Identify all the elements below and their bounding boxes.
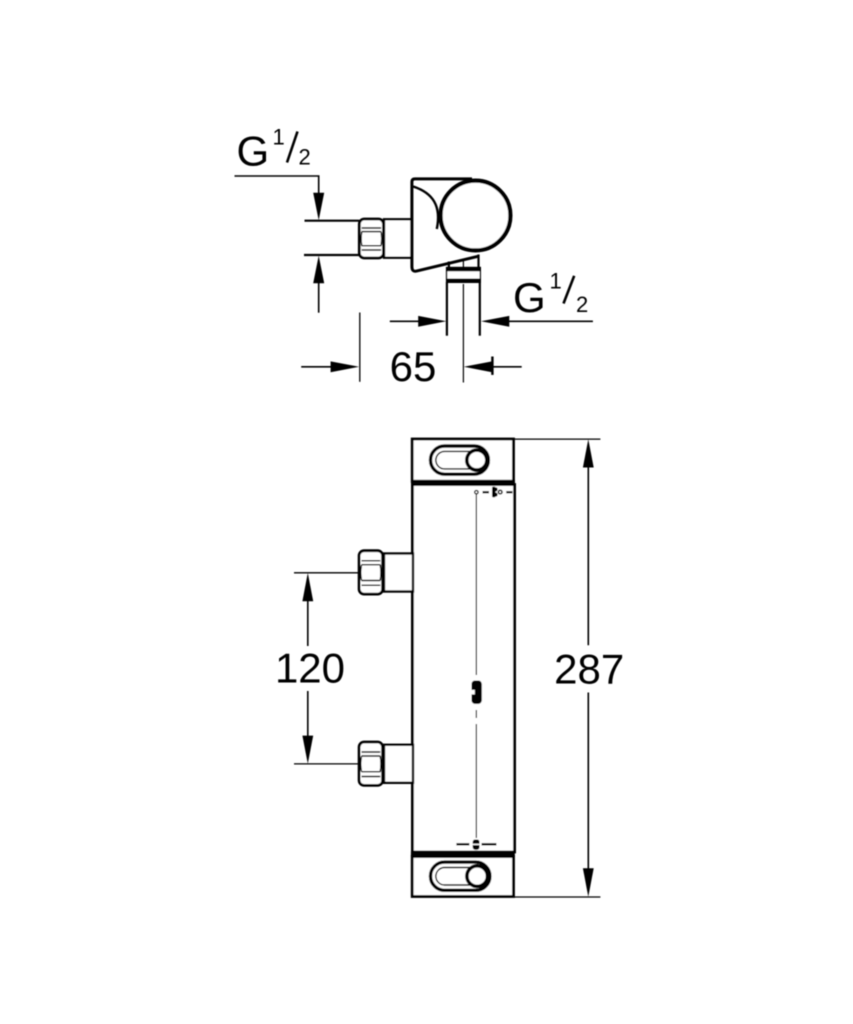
svg-text:1: 1 (550, 269, 562, 294)
svg-text:1: 1 (273, 125, 285, 150)
svg-text:G: G (237, 128, 270, 175)
svg-text:65: 65 (390, 343, 437, 390)
svg-text:2: 2 (576, 292, 588, 317)
svg-text:2: 2 (299, 145, 311, 170)
svg-text:120: 120 (275, 645, 345, 692)
svg-text:287: 287 (554, 645, 624, 692)
svg-text:G: G (513, 274, 546, 321)
